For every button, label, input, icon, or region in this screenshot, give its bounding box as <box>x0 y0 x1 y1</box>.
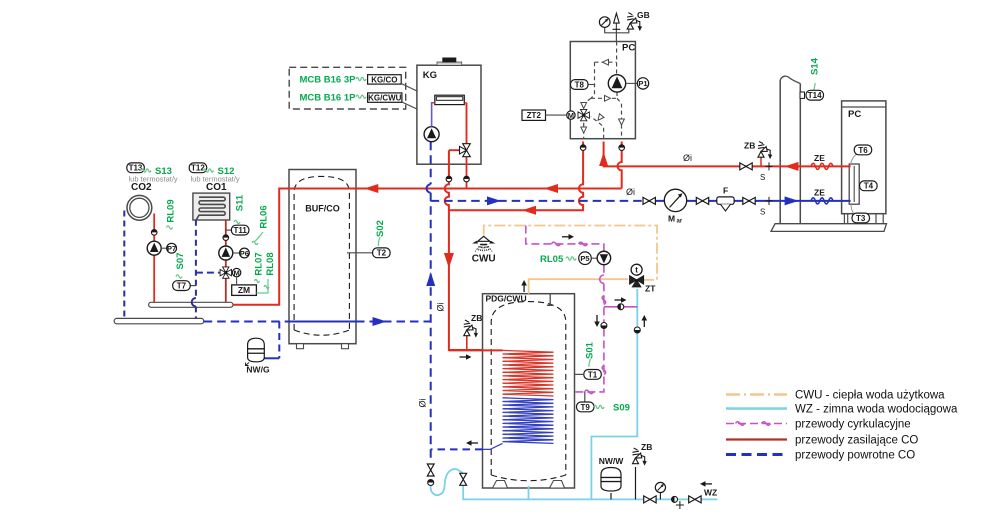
svg-text:WZ: WZ <box>704 488 717 498</box>
outdoor heat pump unit PC <box>842 101 886 224</box>
T14 <box>800 92 805 98</box>
check magenta down <box>601 323 607 329</box>
DHW tank PDG/CWU <box>483 294 575 488</box>
wire T9 stub <box>584 392 586 402</box>
svg-text:KG/CO: KG/CO <box>371 75 397 84</box>
T2 <box>373 248 391 258</box>
arrow down circulation <box>596 315 598 324</box>
svg-text:NW/W: NW/W <box>599 456 625 466</box>
pump P6 <box>219 246 233 260</box>
S13 label <box>141 169 151 172</box>
wire blue BUF bottom return <box>204 321 289 323</box>
svg-text:P6: P6 <box>240 249 249 258</box>
valve cold 1 <box>644 496 656 503</box>
svg-text:Øi: Øi <box>683 153 692 163</box>
wall <box>780 80 800 224</box>
floor base plate <box>771 224 887 232</box>
P1 label <box>626 82 638 84</box>
T4 <box>860 181 878 191</box>
wire T7 stub <box>191 285 196 287</box>
svg-text:RL05: RL05 <box>540 254 564 265</box>
magenta wave mark <box>552 242 561 246</box>
KG shutoff left <box>446 176 452 182</box>
svg-text:ZT2: ZT2 <box>527 111 542 120</box>
wire red PC right port drop <box>618 142 622 189</box>
wire magenta circulation <box>526 226 604 252</box>
S09 <box>594 405 604 408</box>
T13 <box>127 163 145 173</box>
indoor heat pump unit PC <box>570 42 635 139</box>
svg-text:T11: T11 <box>234 226 248 235</box>
svg-text:S11: S11 <box>235 194 246 211</box>
svg-text:ZB: ZB <box>744 141 755 151</box>
check cyan up <box>634 327 640 333</box>
svg-text:T13: T13 <box>129 164 143 173</box>
wire black NW/W vessel stub <box>610 493 612 499</box>
KG pump <box>424 127 439 142</box>
air vent <box>614 13 620 23</box>
black arrow into coil <box>460 356 469 358</box>
mixing valve M CO1 <box>220 267 231 278</box>
T12 <box>189 163 207 173</box>
wire red CO2 riser <box>153 214 155 303</box>
ZT2 box <box>522 110 546 120</box>
svg-text:ZB: ZB <box>471 313 482 323</box>
fill valve 2 <box>460 473 467 485</box>
red arrow outdoor->indoor <box>785 162 799 171</box>
wire red ZE outdoor supply spring <box>811 163 833 169</box>
svg-text:przewody zasilające CO: przewody zasilające CO <box>795 435 918 447</box>
expansion vessel NW/W <box>601 468 621 492</box>
T9 <box>577 402 595 412</box>
wire red KG to PDG coil riser <box>445 150 483 350</box>
arrow right link <box>615 299 624 301</box>
buffer tank BUF/CO <box>289 170 356 349</box>
M circle <box>567 111 575 120</box>
KG internal red <box>432 103 467 145</box>
wire red PC middle port to outdoor supply <box>604 142 851 167</box>
svg-text:ar: ar <box>677 219 683 225</box>
wire orange CWU loop <box>529 279 628 294</box>
check link <box>618 304 624 310</box>
red arrow up into PC <box>599 152 608 166</box>
magenta wave mark <box>579 242 588 246</box>
svg-text:RL09: RL09 <box>166 199 177 222</box>
wire blue NW/G branch <box>278 322 280 359</box>
ZB at outdoor red <box>760 158 762 167</box>
wire red CO1 riser <box>225 220 227 302</box>
shower head CWU <box>478 236 490 241</box>
svg-text:PC: PC <box>848 109 861 120</box>
svg-text:S: S <box>760 173 765 182</box>
wire red CO supply main: manifold riser, BUF top, to PC right port <box>233 189 622 305</box>
svg-text:S: S <box>760 208 765 217</box>
svg-text:T2: T2 <box>377 249 387 258</box>
svg-text:T7: T7 <box>177 282 187 291</box>
svg-text:M: M <box>668 214 675 224</box>
svg-text:S01: S01 <box>585 341 596 359</box>
radiator CO1 <box>193 193 230 220</box>
wire T11 stub <box>226 229 232 231</box>
svg-text:PC: PC <box>622 43 635 54</box>
svg-text:ZE: ZE <box>814 188 825 198</box>
svg-text:T8: T8 <box>575 80 585 89</box>
svg-text:T1: T1 <box>588 370 598 379</box>
blue coil in PDG <box>503 398 554 444</box>
ZB at cold water <box>632 448 646 466</box>
red arrow main left <box>544 184 558 193</box>
valve return 1 <box>643 197 655 204</box>
wire T1 stub <box>575 373 584 375</box>
blue arrow outdoor right <box>785 196 799 205</box>
KG heat exchanger <box>435 95 465 104</box>
T8 sensor <box>588 84 595 86</box>
PC pump P1 <box>608 75 625 92</box>
flow meter Mar <box>664 189 686 211</box>
wire blue CO1 return <box>195 220 197 319</box>
wire red PC left port to PDG riser <box>449 142 583 211</box>
wire blue return main to outdoor <box>431 200 644 202</box>
GB safety group <box>615 23 617 41</box>
svg-text:M: M <box>233 268 239 277</box>
fill check <box>428 480 434 486</box>
blue coil outlet diagonal <box>483 443 503 449</box>
manifold supply bar <box>149 302 233 307</box>
svg-text:P1: P1 <box>638 79 647 88</box>
dip tube <box>547 294 554 306</box>
magenta wave mark <box>602 296 606 305</box>
CO2 shutoff <box>151 230 157 236</box>
svg-text:GB: GB <box>637 10 650 20</box>
valve return 2 <box>696 197 708 204</box>
svg-text:CO2: CO2 <box>131 182 152 193</box>
T1 <box>584 370 602 380</box>
wire cyan cold riser to ZT <box>591 289 637 499</box>
svg-text:P5: P5 <box>580 254 589 263</box>
fill valve <box>427 464 434 476</box>
T7 <box>173 281 191 291</box>
svg-text:Øi: Øi <box>436 302 446 311</box>
svg-text:przewody cyrkulacyjne: przewody cyrkulacyjne <box>795 419 911 431</box>
legend return line <box>726 453 787 456</box>
leaders to T6 T4 T3 <box>851 153 865 215</box>
svg-text:MCB B16 3P: MCB B16 3P <box>300 75 357 86</box>
wire T2 stub <box>347 252 373 254</box>
PC mixing valve M <box>578 109 589 120</box>
wire black NW/W ZB stub <box>635 467 637 499</box>
svg-text:F: F <box>723 186 728 196</box>
pump P5 <box>597 251 611 265</box>
svg-text:WZ - zimna woda wodociągowa: WZ - zimna woda wodociągowa <box>795 404 958 416</box>
red coil inlet <box>449 349 503 351</box>
outdoor HX plate <box>849 164 859 204</box>
KG/CWU box <box>368 93 402 102</box>
svg-text:PDG/CWU: PDG/CWU <box>486 294 527 304</box>
svg-text:przewody powrotne CO: przewody powrotne CO <box>795 450 915 462</box>
wire blue PDG coil return <box>431 448 483 450</box>
T6 <box>854 145 872 155</box>
svg-text:T3: T3 <box>856 214 866 223</box>
svg-text:T9: T9 <box>581 403 591 412</box>
valve cold 2 <box>689 496 701 503</box>
MCB dashed box <box>289 67 406 109</box>
wire red ZB stub at PDG inlet <box>466 336 468 350</box>
pressure gauge <box>599 17 610 28</box>
svg-text:T14: T14 <box>808 91 822 100</box>
ZB at PDG <box>464 320 478 338</box>
wire red KG boiler valve leg <box>449 103 467 189</box>
svg-text:RL06: RL06 <box>259 205 270 228</box>
svg-text:CWU - ciepła woda użytkowa: CWU - ciepła woda użytkowa <box>795 390 945 402</box>
wire blue ZE outdoor return spring <box>811 198 833 204</box>
svg-text:BUF/CO: BUF/CO <box>305 204 340 214</box>
black arrow circulation <box>562 236 571 238</box>
svg-text:Øi: Øi <box>418 398 428 407</box>
legend circulation line <box>726 423 787 425</box>
filter F <box>717 197 734 204</box>
S12 label <box>204 169 214 172</box>
PC port shutoffs <box>580 145 586 151</box>
CO1 shutoff <box>223 235 229 241</box>
svg-text:CO1: CO1 <box>206 182 227 193</box>
PC internal arrows <box>603 59 609 65</box>
legend CWU line <box>726 393 787 396</box>
expansion vessel NW/G <box>246 338 265 365</box>
svg-text:S14: S14 <box>810 57 821 75</box>
ZM box <box>232 285 257 296</box>
wall sleeve marks red <box>766 162 773 170</box>
pump P7 <box>147 241 161 255</box>
KG 3-way valve <box>460 144 471 157</box>
wire cyan cold water bottom main <box>463 486 717 499</box>
M circle CO1 <box>232 268 240 277</box>
svg-text:S09: S09 <box>613 403 630 414</box>
wire red KG exchanger link <box>432 103 435 127</box>
svg-text:M: M <box>568 111 574 120</box>
blue arrow riser up <box>426 272 435 286</box>
svg-text:RL08: RL08 <box>265 252 276 275</box>
check cold <box>672 496 678 502</box>
svg-text:ZT: ZT <box>645 284 656 294</box>
svg-text:S02: S02 <box>375 220 386 237</box>
blue arrow BUF bottom right <box>373 317 387 326</box>
red heating coil in PDG <box>503 350 554 396</box>
wire blue mixer branch <box>196 272 220 274</box>
svg-text:Øi: Øi <box>626 187 635 197</box>
svg-text:CWU: CWU <box>472 254 496 265</box>
svg-text:T6: T6 <box>858 146 868 155</box>
arrow up cyan <box>643 318 645 327</box>
wire blue KG riser / BUF bottom riser / fill drop <box>430 142 432 463</box>
valve on red outdoor line <box>740 163 752 170</box>
WZ inlet arrow <box>703 483 712 485</box>
wall sleeve marks blue <box>766 197 773 205</box>
magenta wave mark <box>602 366 606 375</box>
valve return 3 <box>743 197 755 204</box>
svg-text:S07: S07 <box>175 253 186 270</box>
svg-text:T12: T12 <box>191 164 205 173</box>
thermostatic valve ZT <box>630 276 644 287</box>
wire cyan tank bottom stub <box>528 486 530 499</box>
red arrow into BUF <box>364 184 378 193</box>
svg-text:P7: P7 <box>167 244 176 253</box>
black arrow coil return <box>469 442 478 444</box>
svg-text:ZE: ZE <box>814 153 825 163</box>
gauge cold <box>659 493 661 500</box>
manifold return bar <box>114 318 204 323</box>
PC internal piping <box>616 42 618 75</box>
svg-text:T4: T4 <box>864 182 874 191</box>
KG exchanger left drop <box>431 103 433 127</box>
orange up arrow from tank <box>523 283 525 292</box>
svg-text:ZM: ZM <box>238 285 250 295</box>
boiler KG <box>417 58 481 165</box>
wire cyan fill hose <box>431 469 464 495</box>
svg-text:RL07: RL07 <box>254 252 265 275</box>
KG shutoff right <box>464 176 470 182</box>
red arrow to PDG riser <box>522 206 536 215</box>
legend supply line <box>726 438 787 440</box>
magenta wave mark horiz <box>585 390 594 394</box>
red arrow down PDG riser <box>444 253 454 268</box>
wire magenta to cyan link <box>604 306 637 308</box>
wire blue CO2 return <box>123 211 125 319</box>
T3 <box>852 213 870 223</box>
svg-text:KG/CWU: KG/CWU <box>368 94 402 103</box>
T11 <box>231 225 249 235</box>
svg-text:t: t <box>635 266 638 275</box>
safety valve GB <box>627 13 642 32</box>
connector lines to KG <box>401 84 417 110</box>
svg-text:MCB B16 1P: MCB B16 1P <box>300 92 357 103</box>
KG/CO box <box>368 75 402 84</box>
blue arrow return main right <box>487 196 501 205</box>
round radiator CO2 <box>127 195 152 220</box>
P5 circle <box>579 252 592 265</box>
svg-text:ZB: ZB <box>641 442 652 452</box>
svg-text:KG: KG <box>423 70 437 81</box>
legend WZ line <box>726 407 787 410</box>
svg-text:NW/G: NW/G <box>246 365 270 375</box>
